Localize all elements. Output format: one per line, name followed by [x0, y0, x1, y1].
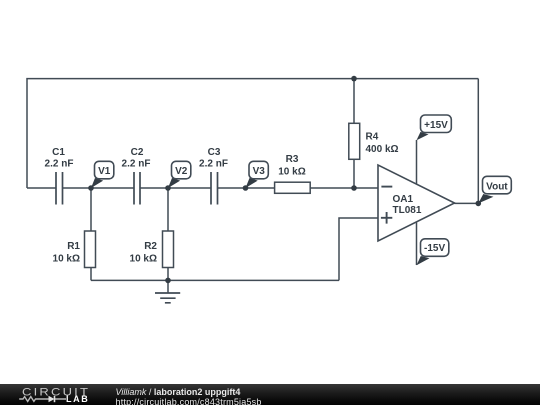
svg-text:400 kΩ: 400 kΩ [366, 144, 399, 155]
resistor R1 [53, 231, 96, 268]
junction node A (V1) [88, 185, 94, 191]
wire C3 to R3 [218, 187, 275, 189]
+15V supply flag [417, 115, 452, 140]
svg-text:10 kΩ: 10 kΩ [53, 254, 80, 265]
ground [155, 293, 180, 303]
svg-text:V1: V1 [98, 166, 111, 177]
wire plus input [339, 218, 378, 280]
svg-text:R1: R1 [67, 241, 80, 252]
CircuitLab logo [22, 385, 90, 398]
wire top-left loop [27, 79, 478, 188]
svg-text:TL081: TL081 [393, 205, 422, 216]
svg-text:Vout: Vout [486, 181, 508, 192]
svg-text:R4: R4 [366, 132, 379, 143]
svg-text:C3: C3 [208, 147, 221, 158]
svg-text:R3: R3 [286, 154, 299, 165]
svg-text:V3: V3 [253, 166, 266, 177]
wire output [455, 202, 479, 204]
junction R4 top [351, 76, 357, 82]
wire -15V supply [416, 223, 418, 266]
resistor R3 [275, 154, 311, 193]
wire +15V supply [416, 140, 418, 184]
wire main input segment [27, 187, 56, 189]
wire R3 to op-amp minus input [310, 187, 378, 189]
svg-text:R2: R2 [144, 241, 157, 252]
wire C1 to C2 [63, 187, 135, 189]
Vout flag [478, 176, 511, 203]
node V1 flag [91, 161, 114, 188]
junction output [476, 201, 482, 207]
wire ground stub [167, 280, 169, 293]
junction R4 bottom / minus input [351, 185, 357, 191]
wire C2 to C3 [140, 187, 211, 189]
node V2 flag [168, 161, 191, 188]
footer title text [116, 387, 262, 405]
-15V supply flag [417, 239, 449, 265]
wire R2 branch [167, 188, 169, 280]
svg-text:2.2 nF: 2.2 nF [45, 159, 74, 170]
junction node C (V3) [243, 185, 249, 191]
capacitor C2 [134, 172, 140, 205]
svg-text:+15V: +15V [424, 120, 448, 131]
svg-text:V2: V2 [175, 166, 188, 177]
logo squiggle resistor+diode [19, 397, 66, 402]
wire right feedback vertical [477, 79, 479, 204]
wire R4 top [353, 79, 355, 124]
wire R4 bottom [353, 159, 355, 188]
svg-text:-15V: -15V [424, 243, 445, 254]
wire R1 branch [90, 188, 92, 280]
svg-text:10 kΩ: 10 kΩ [278, 167, 305, 178]
junction node B (V2) [165, 185, 171, 191]
svg-text:2.2 nF: 2.2 nF [122, 159, 151, 170]
svg-text:2.2 nF: 2.2 nF [199, 159, 228, 170]
resistor R2 [130, 231, 174, 268]
svg-text:C1: C1 [52, 147, 65, 158]
footer bar [0, 384, 540, 405]
svg-text:C2: C2 [131, 147, 144, 158]
op-amp U1 OA1 TL081 [378, 165, 455, 241]
svg-text:10 kΩ: 10 kΩ [130, 254, 157, 265]
node V3 flag [246, 161, 269, 188]
capacitor C1 [56, 172, 63, 205]
capacitor C3 [211, 172, 218, 205]
resistor R4 [349, 123, 399, 159]
junction ground [165, 278, 171, 284]
svg-text:OA1: OA1 [393, 194, 414, 205]
wire bottom return [91, 279, 339, 281]
